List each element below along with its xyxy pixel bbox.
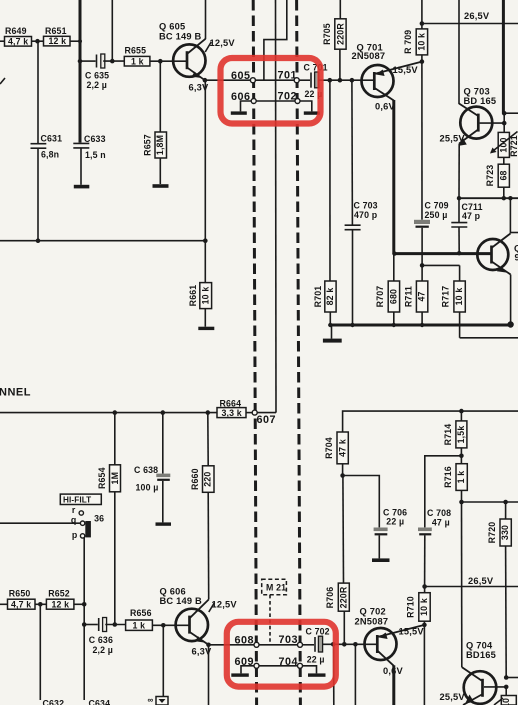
wire: output emitter drop to rail xyxy=(510,275,512,325)
wire: node down to R706 xyxy=(342,476,345,584)
ground: contact 609 xyxy=(231,673,249,676)
svg-text:R655: R655 xyxy=(125,46,147,56)
annotation: red box top (contacts 605/606/701/702) xyxy=(221,58,321,124)
svg-text:10 k: 10 k xyxy=(201,287,211,305)
wire: 26,5V rail to right edge xyxy=(422,23,518,25)
node: R701/ground xyxy=(328,323,332,327)
wire: Q605 collector riser to top edge xyxy=(205,0,207,39)
node: junction R649/R651/C631 xyxy=(35,39,40,44)
svg-text:R710: R710 xyxy=(406,596,416,618)
ground: C633 xyxy=(74,185,90,189)
svg-text:1 k: 1 k xyxy=(131,56,144,66)
capacitor C633 xyxy=(73,134,105,185)
ground: contact 704 xyxy=(308,673,326,676)
node: C711 top xyxy=(457,196,461,200)
svg-text:250 µ: 250 µ xyxy=(425,210,448,220)
svg-text:R720: R720 xyxy=(487,522,497,544)
resistor R707 xyxy=(375,254,399,325)
wire: stub to right edge xyxy=(504,112,518,114)
wire: 605 to 701 xyxy=(255,79,294,81)
svg-text:220R: 220R xyxy=(335,23,345,45)
wire: thick vertical bus from top edge down to C633 xyxy=(79,0,82,143)
svg-text:R650: R650 xyxy=(9,588,31,598)
ground: contact 702 xyxy=(304,111,320,114)
svg-text:100 µ: 100 µ xyxy=(136,483,159,493)
svg-text:NNEL: NNEL xyxy=(0,387,31,399)
svg-text:R707: R707 xyxy=(375,286,385,308)
svg-text:R656: R656 xyxy=(130,608,152,618)
svg-text:Q 703: Q 703 xyxy=(464,87,490,97)
svg-text:605: 605 xyxy=(231,70,251,82)
node: C711 bottom on base line xyxy=(457,251,461,255)
wire: R649 to R651 xyxy=(32,40,44,42)
svg-text:R 709: R 709 xyxy=(403,30,413,54)
node: R706 tap xyxy=(342,642,347,647)
wire: thick base line to output transistor xyxy=(394,252,491,255)
resistor R711 xyxy=(403,265,428,325)
wire: emitter down to R661 rail xyxy=(204,80,206,241)
wire: vertical feed line from top edge xyxy=(111,0,113,61)
transistor Q606 BC149B xyxy=(160,587,209,645)
svg-text:25,5V: 25,5V xyxy=(440,133,466,143)
node: R701 tap xyxy=(328,78,333,83)
svg-text:609: 609 xyxy=(235,656,255,668)
resistor R701 xyxy=(313,80,336,325)
svg-text:C634: C634 xyxy=(89,699,111,705)
svg-text:330: 330 xyxy=(500,525,510,540)
node: Q606 emitter xyxy=(206,643,211,648)
capacitor C636 xyxy=(84,618,125,655)
wire: Q703 base to bus xyxy=(480,122,505,124)
wire: 609 to 704 xyxy=(259,665,298,667)
svg-text:C 702: C 702 xyxy=(306,626,330,636)
svg-text:47 k: 47 k xyxy=(337,439,347,457)
node: C708/R710 xyxy=(422,584,427,589)
resistor R661 xyxy=(188,241,212,327)
svg-text:220: 220 xyxy=(203,472,213,487)
svg-text:47: 47 xyxy=(417,291,427,301)
wire: module dashed line 2 xyxy=(297,0,301,705)
svg-text:R721: R721 xyxy=(509,135,518,157)
svg-text:1M: 1M xyxy=(110,472,120,485)
capacitor C706 xyxy=(374,508,408,559)
svg-text:R701: R701 xyxy=(313,286,323,308)
trimmer R722 100 (cut) xyxy=(494,696,516,705)
svg-text:606: 606 xyxy=(231,91,251,103)
svg-text:C 638: C 638 xyxy=(134,465,158,475)
wire: 607 riser to top edge (line A) xyxy=(257,412,276,414)
svg-text:15,5V: 15,5V xyxy=(399,627,425,637)
svg-text:r: r xyxy=(72,505,76,515)
resistor R716 xyxy=(443,456,468,502)
svg-text:Q 605: Q 605 xyxy=(159,22,185,32)
annotation: red box bottom (contacts 608/609/703/704) xyxy=(227,622,336,687)
wire: Q703 collector riser to top edge xyxy=(458,0,460,104)
capacitor C701 xyxy=(304,62,328,99)
svg-text:608: 608 xyxy=(235,635,255,647)
node: R723 bottom xyxy=(502,196,506,200)
node: collector/R707 xyxy=(392,251,396,255)
svg-text:82 k: 82 k xyxy=(325,288,335,306)
resistor R650 xyxy=(8,588,36,609)
ground: C638 xyxy=(156,522,172,525)
capacitor C709 xyxy=(414,62,449,266)
resistor R656 xyxy=(126,608,153,630)
transistor Q701 2N5087 xyxy=(352,43,422,101)
resistor R655 xyxy=(124,46,150,67)
svg-text:R704: R704 xyxy=(324,437,334,459)
resistor R705 xyxy=(322,0,346,80)
node: base/bus xyxy=(502,121,507,126)
contact 605 xyxy=(250,78,255,83)
wire: R716 node to R720 and right edge xyxy=(462,501,518,503)
svg-text:C632: C632 xyxy=(43,699,65,705)
svg-text:1 k: 1 k xyxy=(456,471,466,484)
node: C631 line joins xyxy=(36,238,41,243)
svg-text:68: 68 xyxy=(499,170,509,180)
svg-text:4,7 k: 4,7 k xyxy=(8,36,28,46)
transistor Q702 2N5087 xyxy=(355,607,425,666)
wire: C704 lead to bottom edge xyxy=(333,644,335,705)
svg-text:1,5 n: 1,5 n xyxy=(85,150,106,160)
svg-text:BD165: BD165 xyxy=(466,650,496,660)
node: Q704 base/bus xyxy=(504,685,509,690)
wire: C701 to Q701 base xyxy=(318,79,374,81)
svg-text:R649: R649 xyxy=(5,26,27,36)
node: R655/R657 xyxy=(158,59,163,64)
wire: 703 to C702 xyxy=(303,644,315,646)
wire: 609 ground lead xyxy=(241,666,254,674)
svg-text:R714: R714 xyxy=(443,424,453,446)
svg-text:25,5V: 25,5V xyxy=(440,692,466,702)
wire: Q704 base to bus xyxy=(484,686,506,688)
svg-text:1,8M: 1,8M xyxy=(155,135,165,155)
svg-text:R657: R657 xyxy=(143,134,153,156)
svg-text:R723: R723 xyxy=(485,165,495,187)
node: bus stub xyxy=(502,111,507,116)
capacitor C708 xyxy=(418,508,451,587)
wire: right bus from top edge xyxy=(502,0,505,113)
wire: emitter to contact 608 xyxy=(209,644,255,646)
svg-text:Q 702: Q 702 xyxy=(360,607,386,617)
svg-text:C 708: C 708 xyxy=(427,508,451,518)
svg-text:4,7 k: 4,7 k xyxy=(11,599,31,609)
wire: collector stub to edge xyxy=(510,232,518,234)
svg-text:26,5V: 26,5V xyxy=(468,576,494,586)
svg-text:10 k: 10 k xyxy=(454,288,464,306)
node: C703 tap xyxy=(350,78,355,83)
wire: emitter node down to bottom edge xyxy=(423,625,425,705)
resistor R704 xyxy=(324,432,349,476)
contact 607 xyxy=(252,410,257,415)
ground: R657 xyxy=(153,184,169,188)
resistor R714 xyxy=(443,411,467,456)
svg-text:2N5087: 2N5087 xyxy=(352,51,386,61)
node: R707/rail xyxy=(392,323,396,327)
resistor R710 xyxy=(406,587,431,625)
resistor R664 xyxy=(217,398,246,417)
svg-text:Q 606: Q 606 xyxy=(160,587,186,597)
contact 609 xyxy=(254,663,259,668)
wire: R702 lead to bottom edge xyxy=(354,644,356,705)
svg-text:9C: 9C xyxy=(515,253,518,263)
svg-text:2,2 µ: 2,2 µ xyxy=(93,645,114,655)
resistor R717 xyxy=(441,265,466,337)
wire: 704 ground lead xyxy=(303,666,317,674)
transistor Q704 BD165 (cut) xyxy=(462,641,497,705)
svg-text:3,3 k: 3,3 k xyxy=(222,408,242,418)
wire: bus to bottom trimmer xyxy=(505,687,507,696)
contact 704 xyxy=(298,663,303,668)
node: R650/R652/C632 xyxy=(38,602,43,607)
svg-text:1,5k: 1,5k xyxy=(456,426,466,444)
resistor R654 xyxy=(97,413,120,625)
contact 608 xyxy=(254,642,259,647)
svg-text:R706: R706 xyxy=(325,587,335,609)
wire: horizontal from left edge to R661 line xyxy=(0,240,205,242)
svg-text:1 k: 1 k xyxy=(133,621,146,631)
node: Q701 emitter / R709 xyxy=(420,59,425,64)
wire: emitter line to bus (y198) xyxy=(459,197,518,199)
wire: bus to trimmer xyxy=(503,113,505,132)
meter point M21 xyxy=(262,579,287,644)
node: R714/R716/C708 xyxy=(459,454,464,459)
resistor R652 xyxy=(46,588,74,609)
node: R716 bottom xyxy=(459,500,464,505)
switch HI-FILT xyxy=(60,494,104,540)
svg-text:26,5V: 26,5V xyxy=(464,11,490,21)
wire: 606 to 702 xyxy=(256,100,295,102)
svg-text:C633: C633 xyxy=(84,134,106,144)
capacitor C702 xyxy=(306,626,330,664)
node: 26,5V / R709 xyxy=(420,21,425,26)
wire: bus to C635 xyxy=(80,60,96,62)
svg-text:36: 36 xyxy=(94,514,104,524)
wire: Q703 emitter drop xyxy=(458,144,460,199)
wire: left edge into R649 xyxy=(0,40,5,42)
node: R720 top xyxy=(503,500,508,505)
contact 703 xyxy=(298,642,303,647)
svg-text:702: 702 xyxy=(278,91,298,103)
wire: line B jog from top edge to 605 wire xyxy=(264,0,287,80)
capacitor C638 xyxy=(134,413,170,523)
ground: C706 xyxy=(372,558,390,562)
svg-text:R716: R716 xyxy=(443,466,453,488)
wire: module dashed line 1 xyxy=(253,0,256,705)
resistor R720 xyxy=(487,502,512,678)
wire: R652 to vertical line xyxy=(74,603,84,605)
wire: C709 node to R717 top xyxy=(422,264,460,266)
svg-text:C 636: C 636 xyxy=(89,635,113,645)
wire: node to C706 xyxy=(343,476,380,528)
node: R704/C706/R706 xyxy=(340,473,345,478)
resistor R649 xyxy=(5,26,32,46)
wire: emitter down to bottom edge xyxy=(208,645,210,705)
transistor Q703 BD165 xyxy=(459,87,496,146)
resistor R709 xyxy=(403,24,428,62)
ground: R661 xyxy=(198,327,214,330)
node: R714 top xyxy=(459,409,464,414)
svg-text:701: 701 xyxy=(278,70,298,82)
resistor R706 xyxy=(325,583,349,644)
svg-text:C631: C631 xyxy=(41,134,63,144)
wire: R716 node down to Q704 collector xyxy=(461,502,463,667)
wire: HI-FILT wiper down to R652 node xyxy=(83,537,85,604)
svg-text:BC 149 B: BC 149 B xyxy=(159,31,202,41)
wire: 608 to 703 xyxy=(259,644,298,646)
wire: C635 to R655 with tap of upper feed line xyxy=(103,60,124,62)
svg-text:470 p: 470 p xyxy=(354,210,378,220)
capacitor C635 xyxy=(85,54,109,90)
svg-text:47 p: 47 p xyxy=(462,211,481,221)
wire: C632 lead down to bottom edge xyxy=(39,604,41,700)
node: R660 top xyxy=(206,410,211,415)
svg-text:M 21: M 21 xyxy=(266,582,286,592)
wire: 702 ground lead xyxy=(300,101,312,111)
ground: contact 606 xyxy=(231,111,247,114)
capacitor C711 xyxy=(451,198,482,253)
node: bus/R651 xyxy=(78,39,82,43)
label pointer 12,5V (Q606) xyxy=(209,603,215,613)
svg-text:22 µ: 22 µ xyxy=(386,516,404,526)
svg-text:12 k: 12 k xyxy=(49,36,67,46)
wire: output collector riser xyxy=(509,198,511,233)
svg-text:Q 704: Q 704 xyxy=(466,641,493,651)
wire: stub to right edge (bottom) xyxy=(506,677,518,679)
node: R702 tap xyxy=(353,642,358,647)
capacitor C631 xyxy=(31,41,63,241)
node: Q702 emitter/R710 xyxy=(422,623,427,628)
capacitor C703 xyxy=(345,80,378,325)
svg-text:12,5V: 12,5V xyxy=(212,599,238,609)
wire: 701 to C701 xyxy=(299,79,310,81)
svg-text:2,2 µ: 2,2 µ xyxy=(87,80,108,90)
wire: R655 to Q605 base xyxy=(150,60,186,62)
svg-text:10 k: 10 k xyxy=(419,598,429,616)
wire: R650 to R652 xyxy=(35,603,46,605)
node: C704 tap xyxy=(331,642,336,647)
node: R661 top xyxy=(203,238,208,243)
transistor Q605 BC149B xyxy=(159,22,206,81)
node: C709/R711 xyxy=(420,263,425,268)
svg-text:R651: R651 xyxy=(45,26,67,36)
symbol: bottom connector (cut) xyxy=(148,696,169,705)
wire: left edge into R650 xyxy=(0,603,8,605)
wire: node to C708 xyxy=(425,456,462,528)
wire: R658 lead down xyxy=(162,625,164,696)
wire: ground rail (thick) xyxy=(330,324,512,327)
node: bus stub (bottom) xyxy=(504,675,509,680)
svg-text:R711: R711 xyxy=(403,286,413,307)
node: emitter/rail xyxy=(507,321,513,327)
svg-text:680: 680 xyxy=(389,289,399,304)
svg-text:2N5087: 2N5087 xyxy=(355,617,389,627)
wire: Q702 collector thick drop to bottom edge xyxy=(392,665,395,705)
wire: feedback rail y=411 xyxy=(343,411,518,432)
node: R654 top xyxy=(113,410,118,415)
svg-text:607: 607 xyxy=(257,414,277,426)
svg-text:R652: R652 xyxy=(48,588,70,598)
ground: rail xyxy=(323,325,342,343)
svg-text:6,8n: 6,8n xyxy=(41,150,59,160)
node: R652/HI-FILT line xyxy=(82,602,87,607)
label pointer 12,5V xyxy=(205,42,211,52)
wire: 26,5V bottom rail xyxy=(425,586,518,588)
resistor R723 xyxy=(485,157,510,198)
svg-text:R717: R717 xyxy=(441,286,451,308)
trimmer R721 100 xyxy=(490,132,518,158)
svg-text:p: p xyxy=(72,530,78,540)
node: bus/C635 tap xyxy=(78,59,83,64)
node: C635/vertical feed xyxy=(110,59,115,64)
svg-text:∞: ∞ xyxy=(148,696,154,705)
svg-text:R660: R660 xyxy=(190,468,200,490)
contact 702 xyxy=(295,99,300,104)
resistor R660 xyxy=(190,413,214,600)
wire: R664 to 607 xyxy=(246,412,252,414)
svg-text:HI-FILT: HI-FILT xyxy=(63,496,91,505)
wire: emitter to contact 605 xyxy=(205,79,250,81)
wire: left edge to HI-FILT q xyxy=(0,522,80,524)
node: C638 top xyxy=(161,410,166,415)
node: R705 tap xyxy=(338,78,343,83)
wire: Q701 collector thick drop xyxy=(392,100,395,254)
node: output collector riser xyxy=(508,196,512,200)
svg-text:BD 165: BD 165 xyxy=(464,96,497,106)
wire: supply rail y=412.6 from left edge to R664 xyxy=(0,412,217,414)
wire: R656 to Q606 base xyxy=(152,624,188,626)
svg-text:10 k: 10 k xyxy=(417,33,427,51)
svg-text:R654: R654 xyxy=(97,467,107,489)
node: C636 tap xyxy=(82,622,87,627)
svg-text:R705: R705 xyxy=(322,23,332,45)
node: C703/rail xyxy=(350,323,354,327)
node: R656/R658 xyxy=(161,623,166,628)
svg-text:22 µ: 22 µ xyxy=(307,655,325,665)
wire: R717 bottom to right edge xyxy=(460,337,518,339)
node: Q605 emitter xyxy=(203,78,208,83)
svg-text:15,5V: 15,5V xyxy=(393,65,419,75)
resistor R651 xyxy=(44,26,71,46)
wire: down to C636 tap and C634 xyxy=(83,604,85,700)
svg-text:47 µ: 47 µ xyxy=(432,517,450,527)
node: C636/R654 junction xyxy=(113,622,118,627)
svg-text:220R: 220R xyxy=(339,586,349,608)
svg-text:12,5V: 12,5V xyxy=(210,38,236,48)
svg-text:R661: R661 xyxy=(188,285,198,307)
svg-text:704: 704 xyxy=(279,656,299,668)
wire: R651 to thick bus xyxy=(70,40,80,42)
transistor Q705 (output, cut at edge) xyxy=(477,234,518,275)
svg-text:703: 703 xyxy=(279,634,299,646)
wire: 26,5V feed from top edge xyxy=(421,0,423,24)
contact 701 xyxy=(294,78,299,83)
svg-text:BC 149 B: BC 149 B xyxy=(160,596,203,606)
resistor R657 xyxy=(143,61,167,184)
contact 606 xyxy=(251,99,256,104)
wire: 606 ground lead xyxy=(241,101,252,111)
svg-text:12 k: 12 k xyxy=(52,599,70,609)
wire: C702 to Q702 base xyxy=(322,643,376,645)
mark: small scan stroke at left edge xyxy=(0,78,5,84)
node: R711/rail xyxy=(420,323,424,327)
